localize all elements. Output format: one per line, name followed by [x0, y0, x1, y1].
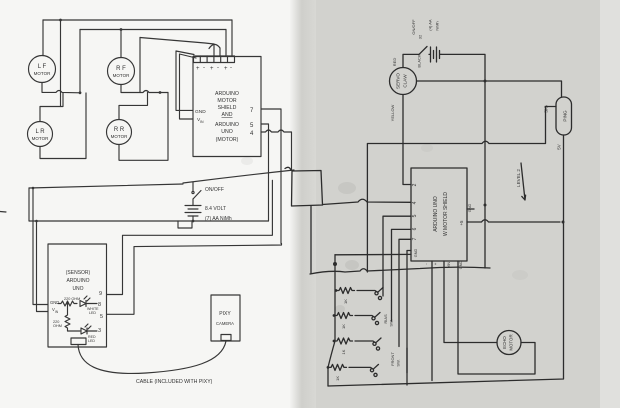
svg-text:220 OHM: 220 OHM [64, 297, 80, 301]
motor LF [29, 56, 56, 83]
wire bus1 into block [231, 20, 233, 56]
svg-text:IN: IN [200, 120, 204, 124]
left paper background [0, 0, 310, 408]
wire bus3 drop [139, 38, 141, 93]
wire gnd stub [467, 208, 474, 210]
wire RR top [119, 93, 148, 120]
sensor arduino U2 [48, 244, 107, 347]
svg-text:4: 4 [412, 201, 418, 204]
wire sensor pin9 run [107, 180, 273, 294]
svg-text:+: + [196, 66, 200, 72]
wire servo top [403, 54, 419, 67]
wire LF top [42, 20, 44, 56]
svg-text:9: 9 [99, 291, 102, 297]
svg-text:5: 5 [100, 314, 103, 320]
wire blob down [310, 206, 312, 273]
svg-text:MOTOR: MOTOR [34, 71, 51, 76]
svg-text:-: - [217, 65, 219, 71]
svg-text:1K: 1K [341, 349, 346, 354]
wire box bottom 1 [431, 261, 433, 381]
wire bus1 drop [60, 20, 62, 107]
wire top bus 2 [80, 29, 226, 31]
svg-text:(SENSOR): (SENSOR) [66, 270, 91, 276]
node battery minus [192, 220, 195, 223]
wire block arch [209, 44, 220, 48]
svg-text:SW.: SW. [396, 359, 401, 366]
svg-text:SW.: SW. [389, 319, 394, 326]
wire servo yellow to pin2 [403, 95, 411, 185]
svg-text:SERVO: SERVO [396, 73, 401, 89]
node RF bottom [159, 91, 162, 94]
svg-text:NiMh: NiMh [435, 21, 440, 30]
node H2 sensor tap [35, 220, 38, 223]
node bus1 [59, 19, 62, 22]
shield terminal block [194, 56, 235, 72]
svg-text:PIXY: PIXY [219, 311, 231, 317]
node RF top [120, 28, 123, 31]
label on/off 32 [411, 19, 423, 39]
svg-text:CLAW: CLAW [403, 74, 408, 88]
svg-text:ARDUINO UNO: ARDUINO UNO [433, 196, 439, 232]
wire pin4 [261, 130, 292, 170]
motor shield U1 [193, 57, 261, 157]
svg-text:3: 3 [98, 328, 101, 334]
motor LR [28, 122, 53, 147]
arduino uno U3 w/ motor shield [411, 168, 472, 269]
svg-text:UNO: UNO [72, 286, 83, 292]
motor RR [107, 120, 132, 145]
wire sig run [367, 107, 556, 273]
svg-text:R R: R R [114, 127, 125, 133]
wire servo right to ping [417, 81, 562, 97]
sensor usb connector [71, 338, 86, 345]
svg-text:GND: GND [50, 300, 59, 305]
svg-text:ON/OFF: ON/OFF [411, 19, 416, 35]
node servo bus [484, 80, 487, 83]
switch S1 [357, 216, 411, 299]
wire +5 out [467, 220, 560, 222]
wire LF bottom [42, 83, 80, 93]
resistor R5 1K [333, 338, 353, 354]
svg-text:W MOTOR SHIELD: W MOTOR SHIELD [443, 192, 449, 236]
svg-text:7: 7 [412, 237, 418, 240]
node +5 join [562, 221, 565, 224]
svg-text:GND: GND [459, 261, 463, 270]
wire bus2 drop [79, 30, 81, 93]
wire shield GND feed [176, 51, 194, 110]
switch servo power [419, 47, 427, 55]
battery B2 4xAA [428, 19, 442, 62]
wire shield Vin feed [180, 54, 197, 119]
wire pin5 [261, 124, 269, 221]
svg-text:+: + [224, 66, 228, 72]
svg-text:AND: AND [222, 112, 233, 118]
svg-text:32: 32 [418, 34, 423, 39]
svg-text:-: - [230, 65, 232, 71]
wire H1-H2 left link [28, 188, 30, 221]
svg-text:6: 6 [412, 227, 418, 230]
wire RF bottom [121, 85, 168, 93]
svg-text:ARDUINO: ARDUINO [66, 278, 89, 284]
svg-text:+5: +5 [459, 220, 464, 226]
wire bus2 into block [225, 30, 227, 57]
wire battery step [178, 221, 192, 228]
svg-text:CAMERA: CAMERA [216, 321, 234, 326]
svg-text:L R: L R [35, 129, 45, 135]
switch S4 [349, 251, 411, 386]
svg-text:ARDUINO: ARDUINO [215, 91, 239, 97]
wire sensor Vin feed [37, 221, 49, 312]
svg-text:1K: 1K [341, 324, 346, 329]
svg-text:+: + [433, 262, 438, 265]
motor RF [108, 58, 135, 85]
wire sensor GND feed [33, 188, 48, 305]
svg-text:SHIELD: SHIELD [218, 105, 237, 111]
echo motor M2 [497, 331, 521, 355]
svg-text:GND: GND [195, 109, 206, 115]
svg-text:MOTOR: MOTOR [32, 136, 49, 141]
node H1 sensor tap [32, 187, 35, 190]
resistor R1 220ohm [58, 297, 80, 306]
svg-text:8.4 VOLT: 8.4 VOLT [205, 206, 226, 212]
resistor R6 1K [327, 364, 347, 380]
battery B1 8.4V [185, 199, 232, 222]
wire box bottom 3 echo loop [458, 261, 535, 374]
resistor R4 1K [333, 313, 353, 329]
LED D2 red [68, 324, 98, 343]
svg-text:LED: LED [88, 339, 95, 343]
switch ON/OFF [192, 182, 224, 199]
switch S3 [355, 239, 411, 350]
svg-text:BLACK: BLACK [417, 54, 422, 67]
node level tap [484, 204, 487, 207]
svg-text:MOTOR: MOTOR [509, 334, 514, 350]
wire RF top [120, 30, 122, 58]
node sensor row1 [66, 302, 68, 304]
svg-text:CABLE (INCLUDED WITH PIXY): CABLE (INCLUDED WITH PIXY) [136, 379, 213, 385]
svg-text:FRONT: FRONT [390, 352, 395, 366]
wire gnd to bus [335, 253, 411, 255]
svg-text:OHM: OHM [53, 324, 62, 328]
node bus top [333, 262, 337, 266]
svg-text:L F: L F [38, 64, 47, 70]
node LF bottom [79, 91, 82, 94]
svg-text:+: + [210, 66, 214, 72]
label level 2 [516, 163, 526, 200]
svg-text:-: - [203, 65, 205, 71]
svg-text:YELLOW: YELLOW [390, 104, 395, 121]
svg-text:RIAS: RIAS [383, 314, 388, 324]
wire H2 battery minus bus [29, 220, 269, 222]
wire block stub v2 [219, 48, 221, 56]
svg-text:RED: RED [392, 58, 397, 67]
LED D1 white [80, 296, 99, 315]
wire LR top [40, 93, 63, 122]
svg-text:LEVEL 2: LEVEL 2 [516, 169, 521, 187]
servo claw M1 [390, 68, 417, 95]
wire LR bottom loop [40, 93, 86, 159]
svg-text:ON/OFF: ON/OFF [205, 187, 224, 193]
svg-text:GND: GND [414, 249, 418, 258]
svg-text:R F: R F [116, 66, 126, 72]
svg-text:PING: PING [563, 110, 568, 122]
wire bottom rail wavy [310, 267, 490, 274]
wire top bus 1 [43, 19, 232, 21]
svg-text:MOTOR: MOTOR [217, 98, 236, 104]
svg-text:MOTOR: MOTOR [113, 73, 130, 78]
wire block stub v1 [140, 38, 214, 57]
wire blob to pin4 [323, 199, 412, 204]
wire pin7 [261, 109, 281, 244]
left edge tick [0, 211, 6, 214]
svg-text:GND: GND [468, 204, 472, 213]
wire switch bus [328, 255, 335, 386]
resistor R3 1K [335, 288, 355, 304]
wire battery to right drop [441, 54, 485, 268]
svg-text:1K: 1K [343, 299, 348, 304]
ping sensor [556, 97, 572, 135]
svg-text:(MOTOR): (MOTOR) [216, 137, 239, 143]
wire sensor pin5 run [107, 244, 282, 315]
svg-text:(4) AA: (4) AA [428, 19, 433, 30]
svg-text:MOTOR: MOTOR [111, 134, 128, 139]
wire battery plus run [183, 170, 294, 183]
wire pixy cable [78, 341, 226, 373]
wire RR bottom loop [119, 93, 168, 161]
right photo background [296, 0, 620, 408]
svg-text:5V: 5V [557, 144, 562, 149]
switch S2 [355, 229, 411, 326]
wire 5v rail [328, 135, 564, 386]
svg-text:2: 2 [412, 183, 418, 186]
svg-text:1K: 1K [335, 376, 340, 381]
pixy camera module [211, 295, 240, 341]
resistor R2 220ohm [53, 304, 70, 332]
svg-text:LED: LED [89, 311, 96, 315]
svg-text:ARDUINO: ARDUINO [215, 122, 239, 128]
wire H1 [29, 184, 183, 188]
connector blob between halves [285, 167, 323, 206]
svg-text:ECHO: ECHO [502, 336, 507, 349]
svg-text:UNO: UNO [221, 129, 233, 135]
paper smudges [241, 144, 528, 313]
wire box bottom 2 to echo [444, 261, 497, 343]
svg-text:5: 5 [412, 214, 418, 217]
